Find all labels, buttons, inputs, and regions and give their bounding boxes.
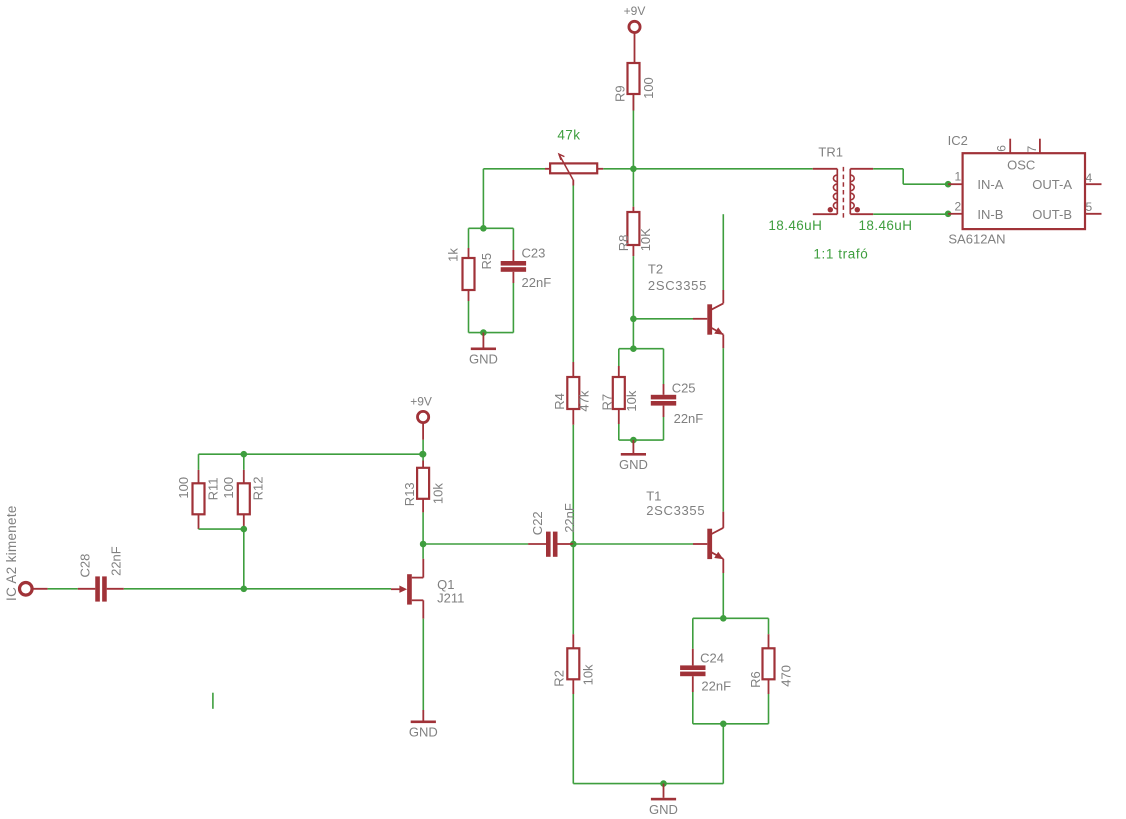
svg-text:R13: R13 xyxy=(402,482,417,506)
svg-text:47k: 47k xyxy=(557,128,580,143)
svg-text:SA612AN: SA612AN xyxy=(948,231,1005,246)
svg-text:10k: 10k xyxy=(430,483,445,504)
svg-text:C23: C23 xyxy=(522,245,546,260)
svg-text:R9: R9 xyxy=(613,85,628,102)
svg-text:R5: R5 xyxy=(479,253,494,270)
svg-text:C22: C22 xyxy=(530,511,545,535)
svg-text:1: 1 xyxy=(955,170,962,184)
svg-text:R4: R4 xyxy=(552,393,567,410)
svg-text:22nF: 22nF xyxy=(522,275,552,290)
svg-text:OSC: OSC xyxy=(1007,157,1035,172)
svg-text:C24: C24 xyxy=(700,650,724,665)
svg-text:1:1 trafó: 1:1 trafó xyxy=(813,247,868,262)
svg-text:R2: R2 xyxy=(551,670,566,687)
svg-text:C25: C25 xyxy=(672,381,696,396)
svg-text:7: 7 xyxy=(1025,146,1039,153)
svg-text:R6: R6 xyxy=(748,671,763,688)
svg-text:18.46uH: 18.46uH xyxy=(859,218,913,233)
svg-text:+9V: +9V xyxy=(410,395,432,409)
svg-text:OUT-A: OUT-A xyxy=(1032,177,1072,192)
svg-text:OUT-B: OUT-B xyxy=(1032,207,1072,222)
svg-text:IC2: IC2 xyxy=(948,133,968,148)
svg-text:4: 4 xyxy=(1086,171,1093,185)
svg-text:10k: 10k xyxy=(624,390,639,411)
svg-text:T2: T2 xyxy=(648,261,663,276)
svg-text:470: 470 xyxy=(778,665,793,687)
svg-text:GND: GND xyxy=(469,352,498,367)
svg-text:10k: 10k xyxy=(581,664,596,685)
svg-text:10K: 10K xyxy=(638,228,653,251)
svg-text:47k: 47k xyxy=(577,390,592,411)
svg-text:100: 100 xyxy=(641,77,656,99)
svg-text:R12: R12 xyxy=(251,477,266,501)
svg-text:GND: GND xyxy=(619,457,648,472)
svg-text:IN-B: IN-B xyxy=(977,207,1003,222)
svg-text:C28: C28 xyxy=(78,554,93,578)
svg-text:GND: GND xyxy=(409,725,438,740)
svg-text:2SC3355: 2SC3355 xyxy=(646,503,705,518)
svg-text:5: 5 xyxy=(1086,200,1093,214)
svg-text:22nF: 22nF xyxy=(109,546,124,576)
svg-text:IC A2 kimenete: IC A2 kimenete xyxy=(4,505,19,601)
svg-text:R8: R8 xyxy=(616,235,631,252)
svg-text:22nF: 22nF xyxy=(674,411,704,426)
svg-text:R11: R11 xyxy=(206,478,221,501)
svg-text:6: 6 xyxy=(995,145,1009,152)
svg-text:IN-A: IN-A xyxy=(977,177,1003,192)
svg-text:2: 2 xyxy=(955,199,962,213)
svg-text:1k: 1k xyxy=(446,248,461,262)
svg-text:100: 100 xyxy=(176,477,191,499)
svg-text:22nF: 22nF xyxy=(562,503,577,533)
svg-text:R7: R7 xyxy=(599,394,614,411)
svg-text:GND: GND xyxy=(649,802,678,817)
svg-text:TR1: TR1 xyxy=(818,145,843,160)
svg-text:2SC3355: 2SC3355 xyxy=(648,278,707,293)
svg-text:+9V: +9V xyxy=(624,4,646,18)
svg-text:J211: J211 xyxy=(437,591,464,606)
svg-text:18.46uH: 18.46uH xyxy=(768,218,822,233)
svg-text:22nF: 22nF xyxy=(701,678,731,693)
svg-text:100: 100 xyxy=(221,477,236,499)
svg-text:T1: T1 xyxy=(646,489,661,504)
